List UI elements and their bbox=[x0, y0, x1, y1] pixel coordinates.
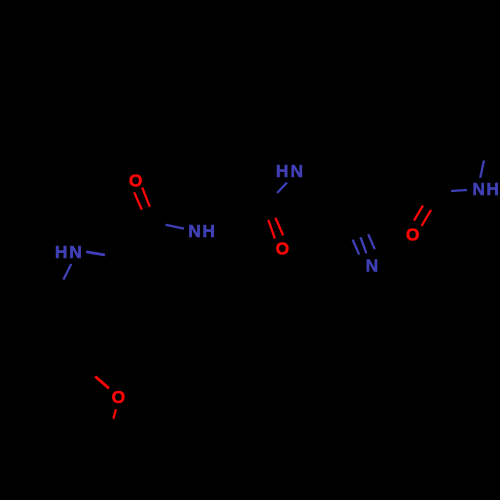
svg-text:N: N bbox=[291, 161, 304, 181]
svg-text:O: O bbox=[406, 224, 420, 244]
svg-text:O: O bbox=[112, 387, 126, 407]
svg-text:N: N bbox=[188, 221, 201, 241]
svg-text:H: H bbox=[276, 161, 289, 181]
svg-text:H: H bbox=[486, 179, 499, 199]
svg-text:N: N bbox=[472, 179, 485, 199]
svg-text:H: H bbox=[55, 242, 68, 262]
svg-text:N: N bbox=[366, 255, 379, 275]
svg-text:H: H bbox=[202, 221, 215, 241]
svg-text:O: O bbox=[276, 239, 290, 259]
svg-text:N: N bbox=[69, 242, 82, 262]
svg-text:O: O bbox=[129, 170, 143, 190]
